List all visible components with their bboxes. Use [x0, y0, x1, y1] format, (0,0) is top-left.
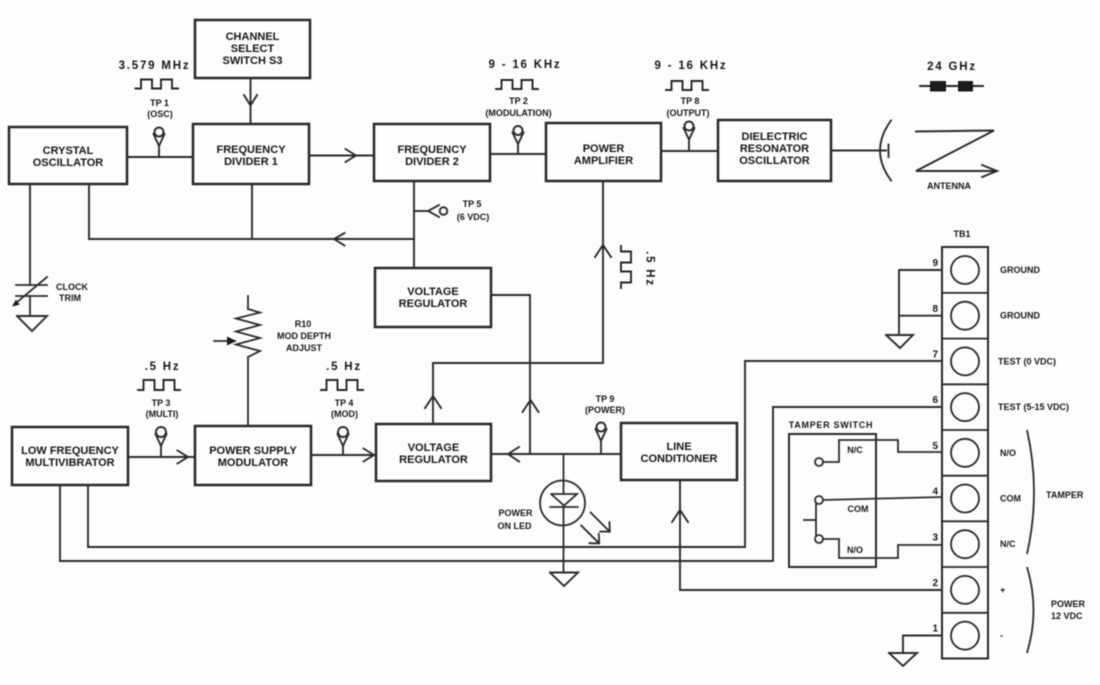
wire terminal 1 stub to ground: [903, 636, 942, 654]
wire terminal 9 stub to ground: [899, 270, 942, 335]
test point TP2 symbol: [514, 126, 523, 135]
test point TP1 symbol: [155, 128, 164, 137]
svg-text:RESONATOR: RESONATOR: [740, 143, 809, 155]
svg-text:LINE: LINE: [666, 441, 691, 453]
svg-text:SWITCH S3: SWITCH S3: [223, 55, 283, 67]
block FREQUENCY DIVIDER 1: [193, 124, 309, 184]
svg-text:TP 9: TP 9: [596, 394, 615, 404]
potentiometer R10 top lead: [247, 296, 249, 309]
tamper switch N/C contact: [815, 458, 823, 466]
tamper switch S1 enclosure: [789, 434, 876, 567]
svg-text:GROUND: GROUND: [1000, 265, 1040, 275]
block LOW FREQUENCY MULTIVIBRATOR: [12, 427, 128, 485]
wire LFM bottom to test bus 2: [59, 485, 61, 561]
svg-text:VOLTAGE: VOLTAGE: [408, 442, 460, 454]
clock trim capacitor plates: [16, 284, 47, 286]
arrowhead down into frequency divider 1: [244, 95, 257, 106]
wire frequency divider 1 bottom to 6V bus: [251, 184, 253, 239]
svg-text:VOLTAGE: VOLTAGE: [407, 286, 459, 298]
arrowhead left into voltage regulator lower: [508, 447, 519, 462]
svg-text:DIELECTRIC: DIELECTRIC: [742, 131, 808, 143]
arrowhead left on 6V bus: [334, 233, 345, 246]
block VOLTAGE REGULATOR U1 upper: [375, 268, 491, 327]
terminal 7 screw: [951, 347, 979, 375]
svg-text:R10: R10: [295, 319, 312, 329]
svg-text:5: 5: [932, 441, 938, 452]
svg-text:ON LED: ON LED: [497, 521, 532, 531]
svg-text:OSCILLATOR: OSCILLATOR: [739, 155, 810, 167]
svg-text:COM: COM: [1000, 494, 1021, 504]
svg-text:8: 8: [932, 304, 938, 315]
square wave symbol at TP3 .5 Hz: [138, 380, 180, 390]
svg-text:TAMPER SWITCH: TAMPER SWITCH: [789, 420, 873, 430]
wire tamper COM to terminal 4: [823, 497, 942, 500]
svg-text:3: 3: [932, 533, 938, 544]
power terminals brace: [1027, 567, 1034, 653]
svg-text:TEST (0 VDC): TEST (0 VDC): [998, 356, 1056, 366]
wire power supply modulator to voltage regulator lower: [311, 454, 376, 456]
svg-text:9 - 16 KHz: 9 - 16 KHz: [489, 59, 562, 71]
arrowhead up into power amplifier: [595, 245, 611, 257]
svg-text:ADJUST: ADJUST: [286, 343, 323, 353]
block POWER SUPPLY MODULATOR: [195, 426, 311, 485]
svg-text:4: 4: [932, 487, 938, 498]
svg-text:+: +: [1000, 585, 1005, 595]
wire LFM bottom to test bus 1: [87, 485, 89, 547]
svg-text:POWER: POWER: [498, 508, 533, 518]
svg-text:TP 8: TP 8: [681, 96, 700, 106]
wire low frequency multivibrator to power supply modulator: [128, 456, 195, 458]
svg-text:REGULATOR: REGULATOR: [399, 298, 468, 310]
wire frequency divider 1 to frequency divider 2: [309, 155, 374, 157]
svg-text:N/C: N/C: [1000, 539, 1016, 549]
svg-text:TP 2: TP 2: [509, 96, 528, 106]
wire dielectric resonator oscillator to antenna: [831, 150, 886, 152]
svg-text:N/O: N/O: [847, 545, 863, 555]
tamper switch actuator bar: [815, 504, 817, 535]
ground symbol below power on LED: [550, 573, 578, 587]
svg-text:CONDITIONER: CONDITIONER: [641, 453, 718, 465]
svg-text:REGULATOR: REGULATOR: [399, 454, 468, 466]
test point TP4 symbol: [338, 427, 348, 437]
test bus 2 to terminal 6: [60, 407, 942, 561]
wire frequency divider 2 bottom to voltage regulator upper: [413, 181, 415, 268]
block CHANNEL SELECT SWITCH S3: [195, 20, 310, 78]
svg-text:POWER SUPPLY: POWER SUPPLY: [209, 445, 297, 457]
terminal block TB1 cell dividers: [942, 293, 988, 613]
svg-text:-: -: [1000, 631, 1003, 641]
wire crystal oscillator bottom-left to clock trim: [29, 184, 31, 285]
svg-text:MODULATOR: MODULATOR: [218, 457, 289, 469]
test point TP5 symbol: [414, 210, 428, 212]
svg-text:6: 6: [932, 395, 938, 406]
svg-text:CHANNEL: CHANNEL: [226, 31, 280, 43]
block DIELECTRIC RESONATOR OSCILLATOR: [718, 120, 831, 181]
ground symbol at terminal 9: [886, 335, 913, 348]
svg-text:TP 1: TP 1: [150, 98, 169, 108]
terminal 6 screw: [951, 393, 979, 421]
clock trim wire to ground: [29, 296, 31, 316]
svg-text:N/C: N/C: [847, 445, 863, 455]
test point TP3 symbol: [156, 427, 166, 437]
svg-text:FREQUENCY: FREQUENCY: [216, 144, 286, 156]
svg-text:LOW FREQUENCY: LOW FREQUENCY: [21, 445, 119, 457]
clock trim arrowhead: [12, 300, 20, 307]
tamper switch N/O contact: [815, 535, 823, 543]
terminal 1 screw: [951, 622, 979, 650]
wire line conditioner to voltage regulator lower: [491, 453, 621, 455]
ground symbol at terminal 1: [889, 653, 917, 666]
wire line conditioner bottom to terminal 2: [680, 480, 942, 590]
svg-text:CRYSTAL: CRYSTAL: [43, 145, 94, 157]
svg-text:7: 7: [932, 350, 938, 361]
terminal 2 screw: [951, 576, 979, 604]
wire voltage regulator upper output right: [491, 295, 530, 453]
test bus 1 to terminal 7: [88, 361, 942, 547]
LED light arrow 2: [581, 525, 599, 543]
svg-text:.5 Hz: .5 Hz: [326, 361, 362, 373]
svg-text:AMPLIFIER: AMPLIFIER: [574, 155, 633, 167]
svg-text:3.579 MHz: 3.579 MHz: [119, 60, 191, 72]
svg-text:(6 VDC): (6 VDC): [457, 212, 490, 222]
svg-text:TB1: TB1: [953, 229, 970, 239]
terminal 9 screw: [951, 256, 979, 284]
square wave symbol at TP8 9-16 KHz: [666, 81, 708, 90]
svg-text:GROUND: GROUND: [1000, 311, 1040, 321]
antenna feed tick: [888, 145, 890, 158]
svg-text:SELECT: SELECT: [231, 43, 275, 55]
terminal 5 screw: [951, 439, 979, 467]
clock trim adjust arrow: [16, 277, 47, 303]
square wave symbol at TP1 3.579 MHz: [136, 80, 179, 89]
svg-text:.5 Hz: .5 Hz: [145, 361, 181, 373]
wire crystal oscillator to frequency divider 1: [127, 156, 193, 158]
svg-text:ANTENNA: ANTENNA: [927, 181, 971, 191]
svg-text:(MOD): (MOD): [331, 409, 358, 419]
svg-text:9: 9: [932, 258, 938, 269]
terminal 4 screw: [951, 485, 979, 513]
LED light arrow 1: [591, 512, 610, 531]
24 GHz signal symbol: [920, 85, 983, 87]
wire power amplifier supply: [433, 181, 603, 424]
svg-text:(POWER): (POWER): [585, 405, 625, 415]
wire power amplifier to dielectric resonator oscillator: [661, 150, 718, 152]
ground symbol at clock trim: [17, 316, 47, 331]
rotated square wave symbol .5 Hz on PA supply: [621, 246, 631, 288]
wire tamper N/C to terminal 5: [823, 440, 942, 462]
potentiometer R10 bottom lead: [247, 357, 249, 426]
wire terminal 8 stub: [899, 315, 942, 317]
arrowhead up from voltage regulator lower: [425, 396, 441, 408]
terminal 8 screw: [951, 302, 979, 330]
svg-text:9 - 16 KHz: 9 - 16 KHz: [655, 60, 728, 72]
antenna reflector arc: [880, 121, 891, 181]
test point TP8 symbol: [685, 122, 694, 131]
6V supply bus horizontal: [89, 238, 414, 240]
block CRYSTAL OSCILLATOR: [9, 127, 127, 184]
svg-text:FREQUENCY: FREQUENCY: [397, 144, 467, 156]
R10 wiper arrowhead: [227, 337, 237, 346]
power on LED D1: [540, 481, 585, 526]
svg-text:N/O: N/O: [1000, 448, 1016, 458]
svg-text:TP 4: TP 4: [335, 398, 354, 408]
arrowhead into power supply modulator: [178, 451, 189, 464]
tamper terminals brace: [1027, 430, 1034, 554]
svg-text:(OUTPUT): (OUTPUT): [667, 108, 710, 118]
arrowhead up toward voltage regulator upper: [523, 400, 539, 412]
arrowhead into voltage regulator lower: [364, 449, 375, 462]
block VOLTAGE REGULATOR lower: [376, 424, 491, 481]
svg-text:(MULTI): (MULTI): [146, 409, 179, 419]
svg-text:MULTIVIBRATOR: MULTIVIBRATOR: [25, 457, 114, 469]
svg-text:2: 2: [932, 578, 938, 589]
svg-text:.5 Hz: .5 Hz: [644, 251, 656, 287]
terminal 3 screw: [951, 530, 979, 558]
svg-text:OSCILLATOR: OSCILLATOR: [33, 157, 104, 169]
square wave symbol at TP4 .5 Hz: [321, 380, 363, 390]
svg-text:DIVIDER 2: DIVIDER 2: [405, 156, 459, 168]
svg-text:1: 1: [932, 624, 938, 635]
potentiometer R10 zigzag: [236, 309, 260, 357]
svg-text:(MODULATION): (MODULATION): [485, 108, 551, 118]
svg-text:TAMPER: TAMPER: [1046, 490, 1084, 500]
test point TP9 symbol: [597, 423, 606, 432]
svg-text:TRIM: TRIM: [59, 293, 81, 303]
tamper switch COM contact: [815, 496, 823, 504]
terminal block TB1 outline: [942, 247, 988, 659]
arrowhead up into line conditioner: [672, 510, 688, 522]
svg-text:COM: COM: [848, 504, 869, 514]
svg-text:12 VDC: 12 VDC: [1051, 611, 1083, 621]
arrowhead into frequency divider 2: [346, 149, 357, 162]
24 GHz symbol filled squares: [930, 81, 946, 92]
wire crystal oscillator bottom-right to 6V bus: [88, 184, 90, 239]
svg-text:24 GHz: 24 GHz: [927, 61, 977, 73]
svg-text:POWER: POWER: [1051, 599, 1086, 609]
svg-text:MOD DEPTH: MOD DEPTH: [277, 331, 331, 341]
svg-text:TEST (5-15 VDC): TEST (5-15 VDC): [998, 402, 1069, 412]
block FREQUENCY DIVIDER 2: [374, 124, 490, 181]
svg-text:DIVIDER 1: DIVIDER 1: [224, 156, 278, 168]
svg-text:(OSC): (OSC): [147, 109, 173, 119]
block POWER AMPLIFIER: [546, 123, 661, 181]
wire tamper N/O to terminal 3: [823, 539, 942, 558]
potentiometer R10 wiper arrow: [214, 340, 235, 342]
svg-text:TP 3: TP 3: [152, 398, 171, 408]
wire frequency divider 2 to power amplifier: [490, 153, 546, 155]
wire channel select to frequency divider 1: [250, 78, 252, 124]
svg-text:CLOCK: CLOCK: [56, 282, 88, 292]
svg-text:TP 5: TP 5: [463, 199, 482, 209]
antenna Z radiating arrow: [916, 131, 997, 172]
square wave symbol at TP2 9-16 KHz: [496, 80, 538, 89]
block LINE CONDITIONER: [621, 423, 737, 480]
svg-text:POWER: POWER: [583, 143, 625, 155]
